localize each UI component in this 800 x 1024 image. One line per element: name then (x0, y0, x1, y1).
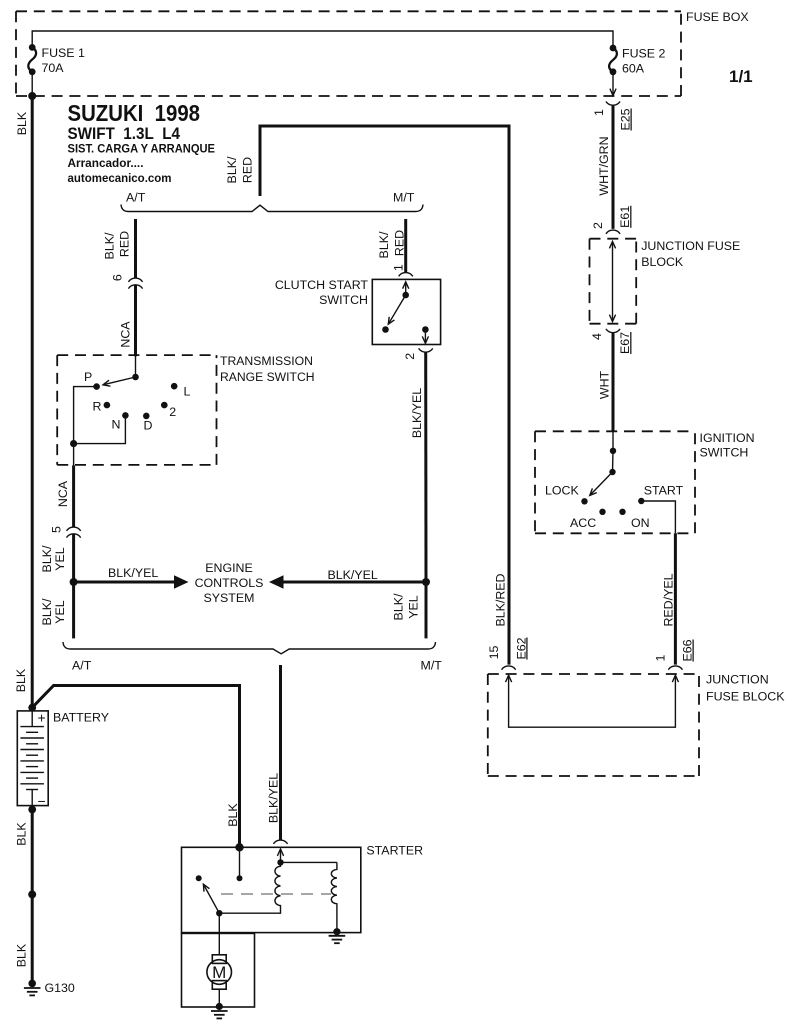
wire BLK/YEL starter (279, 665, 282, 840)
svg-text:SWITCH: SWITCH (700, 446, 749, 460)
TRS common contact (135, 356, 137, 377)
junction fuse block JB2 (dashed) (488, 673, 699, 675)
starter blade (203, 884, 219, 913)
svg-text:4: 4 (590, 333, 604, 340)
contact L (171, 383, 178, 390)
clutch contact lower-left (382, 326, 389, 333)
JB2 internal arrow right (672, 675, 678, 682)
starter input arrow (277, 849, 283, 856)
wire BLK/YEL A/T lower (72, 582, 75, 638)
clutch contact lower-right (422, 326, 429, 333)
svg-text:1: 1 (392, 264, 406, 271)
clutch blade (388, 295, 405, 324)
wire fuse2 output arrow (612, 72, 614, 96)
svg-text:N: N (112, 418, 121, 432)
clutch input arrow (403, 282, 409, 289)
svg-text:BLOCK: BLOCK (641, 255, 684, 269)
wire BLK battery feed (31, 96, 34, 708)
clutch output arrow (424, 330, 426, 343)
svg-text:BLK/YEL: BLK/YEL (328, 568, 378, 582)
svg-text:SUZUKI 1998: SUZUKI 1998 (68, 100, 201, 126)
battery B1 (17, 711, 48, 806)
node battery positive (28, 704, 36, 712)
svg-text:−: − (38, 793, 46, 809)
node fuse box exit (28, 92, 36, 100)
connector C2 clutch (419, 348, 433, 352)
connector C6 inline (128, 278, 142, 282)
fuse F2 (609, 45, 617, 76)
svg-text:M/T: M/T (421, 659, 443, 673)
svg-text:BLK/: BLK/ (103, 232, 117, 259)
wire RED/YEL (674, 533, 677, 664)
svg-text:WHT/GRN: WHT/GRN (597, 136, 611, 195)
svg-text:WHT: WHT (598, 370, 612, 399)
svg-text:BLK/: BLK/ (40, 598, 54, 625)
wire BLK/RED A/T branch (134, 219, 137, 278)
svg-text:BLK/YEL: BLK/YEL (267, 773, 281, 823)
wire fuse feed (32, 31, 613, 48)
svg-text:1: 1 (654, 654, 668, 661)
connector E66 socket (668, 666, 682, 670)
svg-text:RED: RED (118, 231, 132, 257)
contact N (122, 412, 129, 419)
wire BLK/YEL M/T (424, 352, 427, 582)
svg-text:BLK/YEL: BLK/YEL (410, 388, 424, 438)
wire BLK/RED (260, 126, 509, 665)
svg-text:YEL: YEL (53, 547, 67, 571)
starter motor feed (218, 913, 220, 955)
starter solenoid contact left (196, 875, 202, 881)
svg-text:2: 2 (403, 353, 417, 360)
wire BLK battery to ground (31, 810, 34, 981)
svg-text:2: 2 (169, 405, 176, 419)
svg-text:BLK/: BLK/ (392, 593, 406, 620)
motor ground (216, 1003, 223, 1010)
contact LOCK (581, 498, 587, 504)
svg-text:+: + (38, 710, 46, 726)
svg-text:FUSE 2: FUSE 2 (622, 47, 665, 61)
svg-text:CLUTCH START: CLUTCH START (275, 278, 369, 292)
svg-text:FUSE BLOCK: FUSE BLOCK (706, 690, 785, 704)
title text (68, 100, 216, 185)
contact 2 (161, 402, 168, 409)
contact ON (619, 509, 625, 515)
svg-text:NCA: NCA (56, 480, 70, 507)
svg-text:IGNITION: IGNITION (700, 431, 755, 445)
connector E62 socket (502, 666, 516, 670)
starter hold-in coil (331, 862, 337, 931)
wire BLK battery to starter (32, 686, 239, 848)
svg-text:A/T: A/T (126, 190, 146, 204)
svg-text:BLK/: BLK/ (40, 545, 54, 572)
svg-text:60A: 60A (622, 62, 645, 76)
svg-text:RED: RED (393, 230, 407, 256)
svg-text:JUNCTION: JUNCTION (706, 673, 769, 687)
connector starter socket (273, 840, 287, 844)
svg-text:CONTROLS: CONTROLS (195, 576, 264, 590)
svg-text:2: 2 (591, 222, 605, 229)
contact R (104, 402, 111, 409)
connector C5 inline (67, 527, 81, 531)
svg-text:SWITCH: SWITCH (319, 293, 368, 307)
node battery negative (28, 806, 36, 814)
wire START output (641, 501, 675, 533)
JB1 internal arrow (612, 243, 614, 321)
transmission range switch (dashed) (57, 354, 216, 356)
svg-text:YEL: YEL (407, 595, 421, 619)
node BLK/YEL A/T (70, 578, 78, 586)
node BLK/YEL M/T (422, 578, 430, 586)
svg-text:NCA: NCA (119, 321, 133, 348)
svg-text:P: P (84, 370, 92, 384)
svg-text:BLK: BLK (14, 668, 28, 692)
ground G130 (28, 980, 36, 988)
svg-text:START: START (644, 484, 684, 498)
starter input node (235, 843, 243, 851)
brace A/T M/T top (121, 205, 423, 212)
starter solenoid contact right (239, 847, 241, 878)
svg-text:6: 6 (111, 274, 125, 281)
svg-text:E25: E25 (619, 108, 633, 130)
svg-text:BLK/RED: BLK/RED (493, 573, 507, 626)
svg-text:A/T: A/T (72, 659, 92, 673)
svg-text:E66: E66 (681, 639, 695, 661)
svg-text:L: L (184, 385, 191, 399)
svg-text:E67: E67 (618, 332, 632, 354)
starter coil ground (333, 928, 340, 935)
svg-text:E62: E62 (514, 637, 528, 659)
svg-text:E61: E61 (618, 206, 632, 228)
ignition rotor contact (612, 451, 615, 472)
svg-text:JUNCTION FUSE: JUNCTION FUSE (641, 239, 740, 253)
connector E61 socket (606, 230, 620, 234)
fuse box (dashed) (16, 10, 681, 12)
connector E25 socket (606, 102, 620, 106)
svg-text:15: 15 (487, 646, 501, 660)
junction fuse block JB1 (dashed) (590, 238, 637, 240)
svg-text:70A: 70A (42, 61, 65, 75)
connector C1 clutch (399, 273, 413, 277)
svg-text:BATTERY: BATTERY (53, 711, 109, 725)
contact P (93, 383, 100, 390)
starter mechanical link (dashed) (221, 893, 331, 895)
svg-text:M: M (212, 963, 226, 982)
svg-text:RED: RED (241, 157, 255, 183)
starter box (182, 847, 361, 932)
svg-text:SYSTEM: SYSTEM (204, 591, 255, 605)
svg-text:FUSE 1: FUSE 1 (42, 46, 85, 60)
starter coil node (277, 859, 283, 865)
svg-text:BLK: BLK (226, 803, 240, 827)
wire fuse1 output (31, 72, 33, 96)
motor ground link (218, 989, 220, 1006)
fuse F1 (28, 44, 36, 75)
TRS P-N link wire (74, 387, 126, 444)
svg-text:ON: ON (631, 516, 650, 530)
JB2 internal arrow left (506, 675, 512, 682)
svg-text:automecanico.com: automecanico.com (68, 171, 172, 185)
svg-text:BLK/: BLK/ (377, 231, 391, 258)
connector E67 socket (606, 329, 620, 333)
svg-text:ENGINE: ENGINE (205, 561, 253, 575)
TRS blade (103, 377, 136, 385)
wire BLK/YEL to ECS (right) (283, 581, 426, 584)
node BLK splice (28, 890, 36, 898)
svg-text:M/T: M/T (393, 190, 415, 204)
ignition switch (dashed) (535, 430, 695, 432)
wire BLK/RED M/T branch (404, 219, 407, 272)
svg-text:BLK: BLK (15, 943, 29, 967)
svg-text:ACC: ACC (570, 516, 596, 530)
svg-text:YEL: YEL (53, 600, 67, 624)
clutch start switch box (372, 279, 440, 344)
TRS output junction (70, 440, 77, 447)
wire BLK/YEL to ECS (left) (74, 581, 175, 584)
svg-text:5: 5 (49, 526, 63, 533)
svg-text:RANGE SWITCH: RANGE SWITCH (220, 370, 315, 384)
brace A/T M/T bottom (63, 642, 436, 654)
clutch rotor contact (402, 292, 409, 299)
svg-text:G130: G130 (45, 981, 75, 995)
wire BLK/YEL A/T (72, 534, 75, 582)
svg-text:LOCK: LOCK (545, 484, 579, 498)
svg-text:1: 1 (592, 109, 606, 116)
starter blade pivot (216, 910, 222, 916)
svg-text:BLK/: BLK/ (225, 156, 239, 183)
svg-text:D: D (144, 419, 153, 433)
svg-text:R: R (93, 400, 102, 414)
svg-text:1/1: 1/1 (729, 67, 753, 86)
starter pull-in coil (219, 862, 280, 913)
svg-text:SIST. CARGA Y ARRANQUE: SIST. CARGA Y ARRANQUE (68, 142, 216, 156)
contact D (143, 413, 150, 420)
svg-text:SWIFT 1.3L L4: SWIFT 1.3L L4 (68, 124, 181, 143)
wire WHT (612, 333, 615, 431)
svg-text:RED/YEL: RED/YEL (662, 573, 676, 626)
svg-text:BLK: BLK (15, 822, 29, 846)
svg-text:FUSE BOX: FUSE BOX (686, 10, 749, 24)
wire WHT/GRN (612, 106, 615, 229)
wire NCA output (73, 444, 75, 466)
svg-text:BLK/YEL: BLK/YEL (108, 566, 158, 580)
motor M (207, 955, 232, 989)
svg-text:TRANSMISSION: TRANSMISSION (220, 354, 313, 368)
JB2 internal link (509, 676, 676, 727)
wire NCA (134, 285, 137, 356)
ignition switch blade (590, 472, 613, 495)
contact START (638, 498, 644, 504)
svg-text:STARTER: STARTER (366, 844, 423, 858)
svg-text:Arrancador....: Arrancador.... (68, 156, 144, 170)
wire BLK/YEL M/T lower (425, 582, 428, 638)
svg-text:BLK: BLK (15, 111, 29, 135)
contact ACC (599, 509, 605, 515)
starter coil link top (281, 861, 337, 863)
ignition input contact (612, 431, 614, 451)
